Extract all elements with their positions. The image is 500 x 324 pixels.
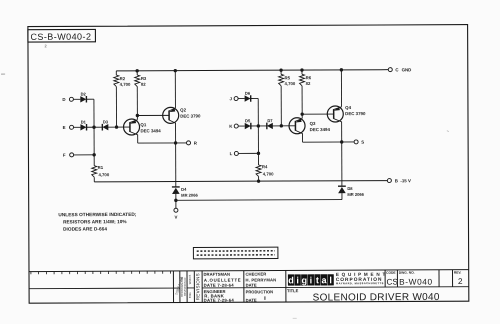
svg-text:D1: D1 <box>81 119 87 124</box>
svg-text:i: i <box>310 275 313 285</box>
svg-text:DATE: DATE <box>246 283 257 288</box>
svg-text:MR 2066: MR 2066 <box>181 193 198 198</box>
svg-text:R4: R4 <box>262 164 268 169</box>
svg-text:RESISTORS ARE 1/4W; 10%: RESISTORS ARE 1/4W; 10% <box>63 219 127 224</box>
svg-text:Q3: Q3 <box>310 121 316 126</box>
svg-text:MAYNARD, MASSACHUSETTS: MAYNARD, MASSACHUSETTS <box>336 281 384 285</box>
svg-text:R5: R5 <box>285 75 291 80</box>
svg-text:MR 2066: MR 2066 <box>347 192 364 197</box>
svg-text:CS: CS <box>386 278 398 287</box>
svg-text:Q2: Q2 <box>180 107 186 112</box>
svg-text:GND: GND <box>402 67 412 72</box>
svg-text:g: g <box>301 275 307 285</box>
svg-text:CHECKER: CHECKER <box>245 272 266 277</box>
svg-text:REVISIONS: REVISIONS <box>195 273 200 300</box>
svg-text:DEC 3494: DEC 3494 <box>310 127 331 132</box>
svg-text:D5: D5 <box>245 118 251 123</box>
svg-text:t: t <box>316 275 319 285</box>
svg-text:DIODES ARE D-664: DIODES ARE D-664 <box>63 226 107 231</box>
svg-text:DRAFTSMAN: DRAFTSMAN <box>203 272 230 277</box>
svg-text:R6: R6 <box>306 75 312 80</box>
svg-text:82: 82 <box>141 82 146 87</box>
svg-text:UNLESS OTHERWISE INDICATED;: UNLESS OTHERWISE INDICATED; <box>58 212 136 217</box>
svg-text:DATE 7-29-64: DATE 7-29-64 <box>204 298 235 303</box>
svg-text:F: F <box>63 153 66 158</box>
svg-text:4,700: 4,700 <box>120 82 131 87</box>
svg-text:REV.: REV. <box>454 271 462 275</box>
svg-text:4,700: 4,700 <box>285 81 296 86</box>
svg-text:TITLE: TITLE <box>287 288 299 293</box>
svg-text:l: l <box>329 275 332 285</box>
svg-text:R1: R1 <box>98 165 104 170</box>
svg-text:E Q U I P M E N T: E Q U I P M E N T <box>336 272 386 277</box>
svg-text:B-W040: B-W040 <box>399 277 433 287</box>
svg-text:REVISED ECO: REVISED ECO <box>183 278 187 296</box>
svg-text:DWG. NO.: DWG. NO. <box>399 271 415 275</box>
svg-text:S: S <box>361 140 364 145</box>
svg-text:D8: D8 <box>347 186 353 191</box>
svg-text:E: E <box>63 125 66 130</box>
svg-text:d: d <box>288 275 294 285</box>
svg-text:R2: R2 <box>120 76 126 81</box>
svg-text:R3: R3 <box>141 76 147 81</box>
svg-text:D3: D3 <box>103 119 109 124</box>
svg-text:i: i <box>296 275 299 285</box>
svg-text:D2: D2 <box>81 91 87 96</box>
svg-text:B: B <box>395 178 398 183</box>
svg-text:V: V <box>174 215 177 220</box>
svg-text:D4: D4 <box>181 187 187 192</box>
svg-text:DEC 3790: DEC 3790 <box>345 111 366 116</box>
svg-text:SOLENOID DRIVER W040: SOLENOID DRIVER W040 <box>313 292 440 304</box>
svg-text:Q1: Q1 <box>140 122 146 127</box>
svg-text:DEC 3790: DEC 3790 <box>180 114 201 119</box>
svg-text:D7: D7 <box>267 118 273 123</box>
svg-text:Q4: Q4 <box>345 105 351 110</box>
svg-text:D6: D6 <box>245 91 251 96</box>
svg-text:4,700: 4,700 <box>263 171 274 176</box>
svg-text:L: L <box>230 151 233 156</box>
svg-text:-15 V: -15 V <box>400 178 411 183</box>
svg-text:DATE 7-28-64: DATE 7-28-64 <box>204 283 235 288</box>
svg-text:CODE: CODE <box>386 271 396 275</box>
svg-text:W040 B: W040 B <box>188 274 192 284</box>
svg-text:82: 82 <box>306 81 311 86</box>
svg-text:2: 2 <box>458 277 463 286</box>
svg-text:4,700: 4,700 <box>98 172 109 177</box>
svg-text:D: D <box>62 97 65 102</box>
svg-text:DATE: DATE <box>246 298 257 303</box>
svg-text:CS-B-W040-2: CS-B-W040-2 <box>30 32 91 42</box>
svg-text:DEC 3494: DEC 3494 <box>140 128 161 133</box>
svg-text:ENG: ENG <box>188 292 192 298</box>
svg-text:a: a <box>321 275 327 285</box>
svg-text:PRODUCTION: PRODUCTION <box>246 289 274 294</box>
